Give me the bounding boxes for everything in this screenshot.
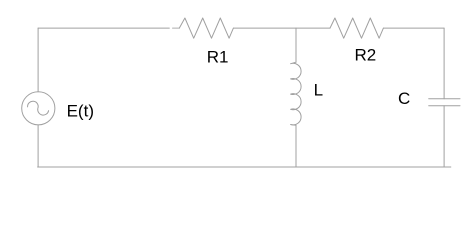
svg-text:E(t): E(t): [67, 101, 94, 120]
wire top-left: left corner to R1: [38, 27, 169, 29]
wire: right side down to capacitor: [443, 28, 445, 99]
wire: inductor to bottom junction: [295, 125, 297, 167]
inductor L: [291, 62, 301, 125]
resistor R2: [330, 18, 383, 38]
AC source sine wave: [28, 101, 49, 115]
wire: left top segment: [37, 28, 39, 92]
AC source E(t) circle: [22, 92, 55, 125]
wire: R1 to junction to R2: [233, 27, 330, 29]
wire: R2 to top-right corner: [383, 27, 444, 29]
resistor R1: [179, 18, 233, 38]
wire: capacitor to bottom-right corner: [443, 106, 445, 167]
svg-text:L: L: [314, 81, 323, 100]
svg-text:C: C: [398, 89, 410, 108]
svg-text:R2: R2: [355, 46, 377, 65]
svg-text:R1: R1: [207, 47, 229, 66]
wire bottom: [38, 166, 451, 168]
wire: junction top to inductor: [295, 28, 297, 62]
wire: R1 left lead after small gap: [173, 27, 180, 29]
capacitor C: [429, 99, 460, 106]
wire: left bottom segment: [37, 125, 39, 167]
